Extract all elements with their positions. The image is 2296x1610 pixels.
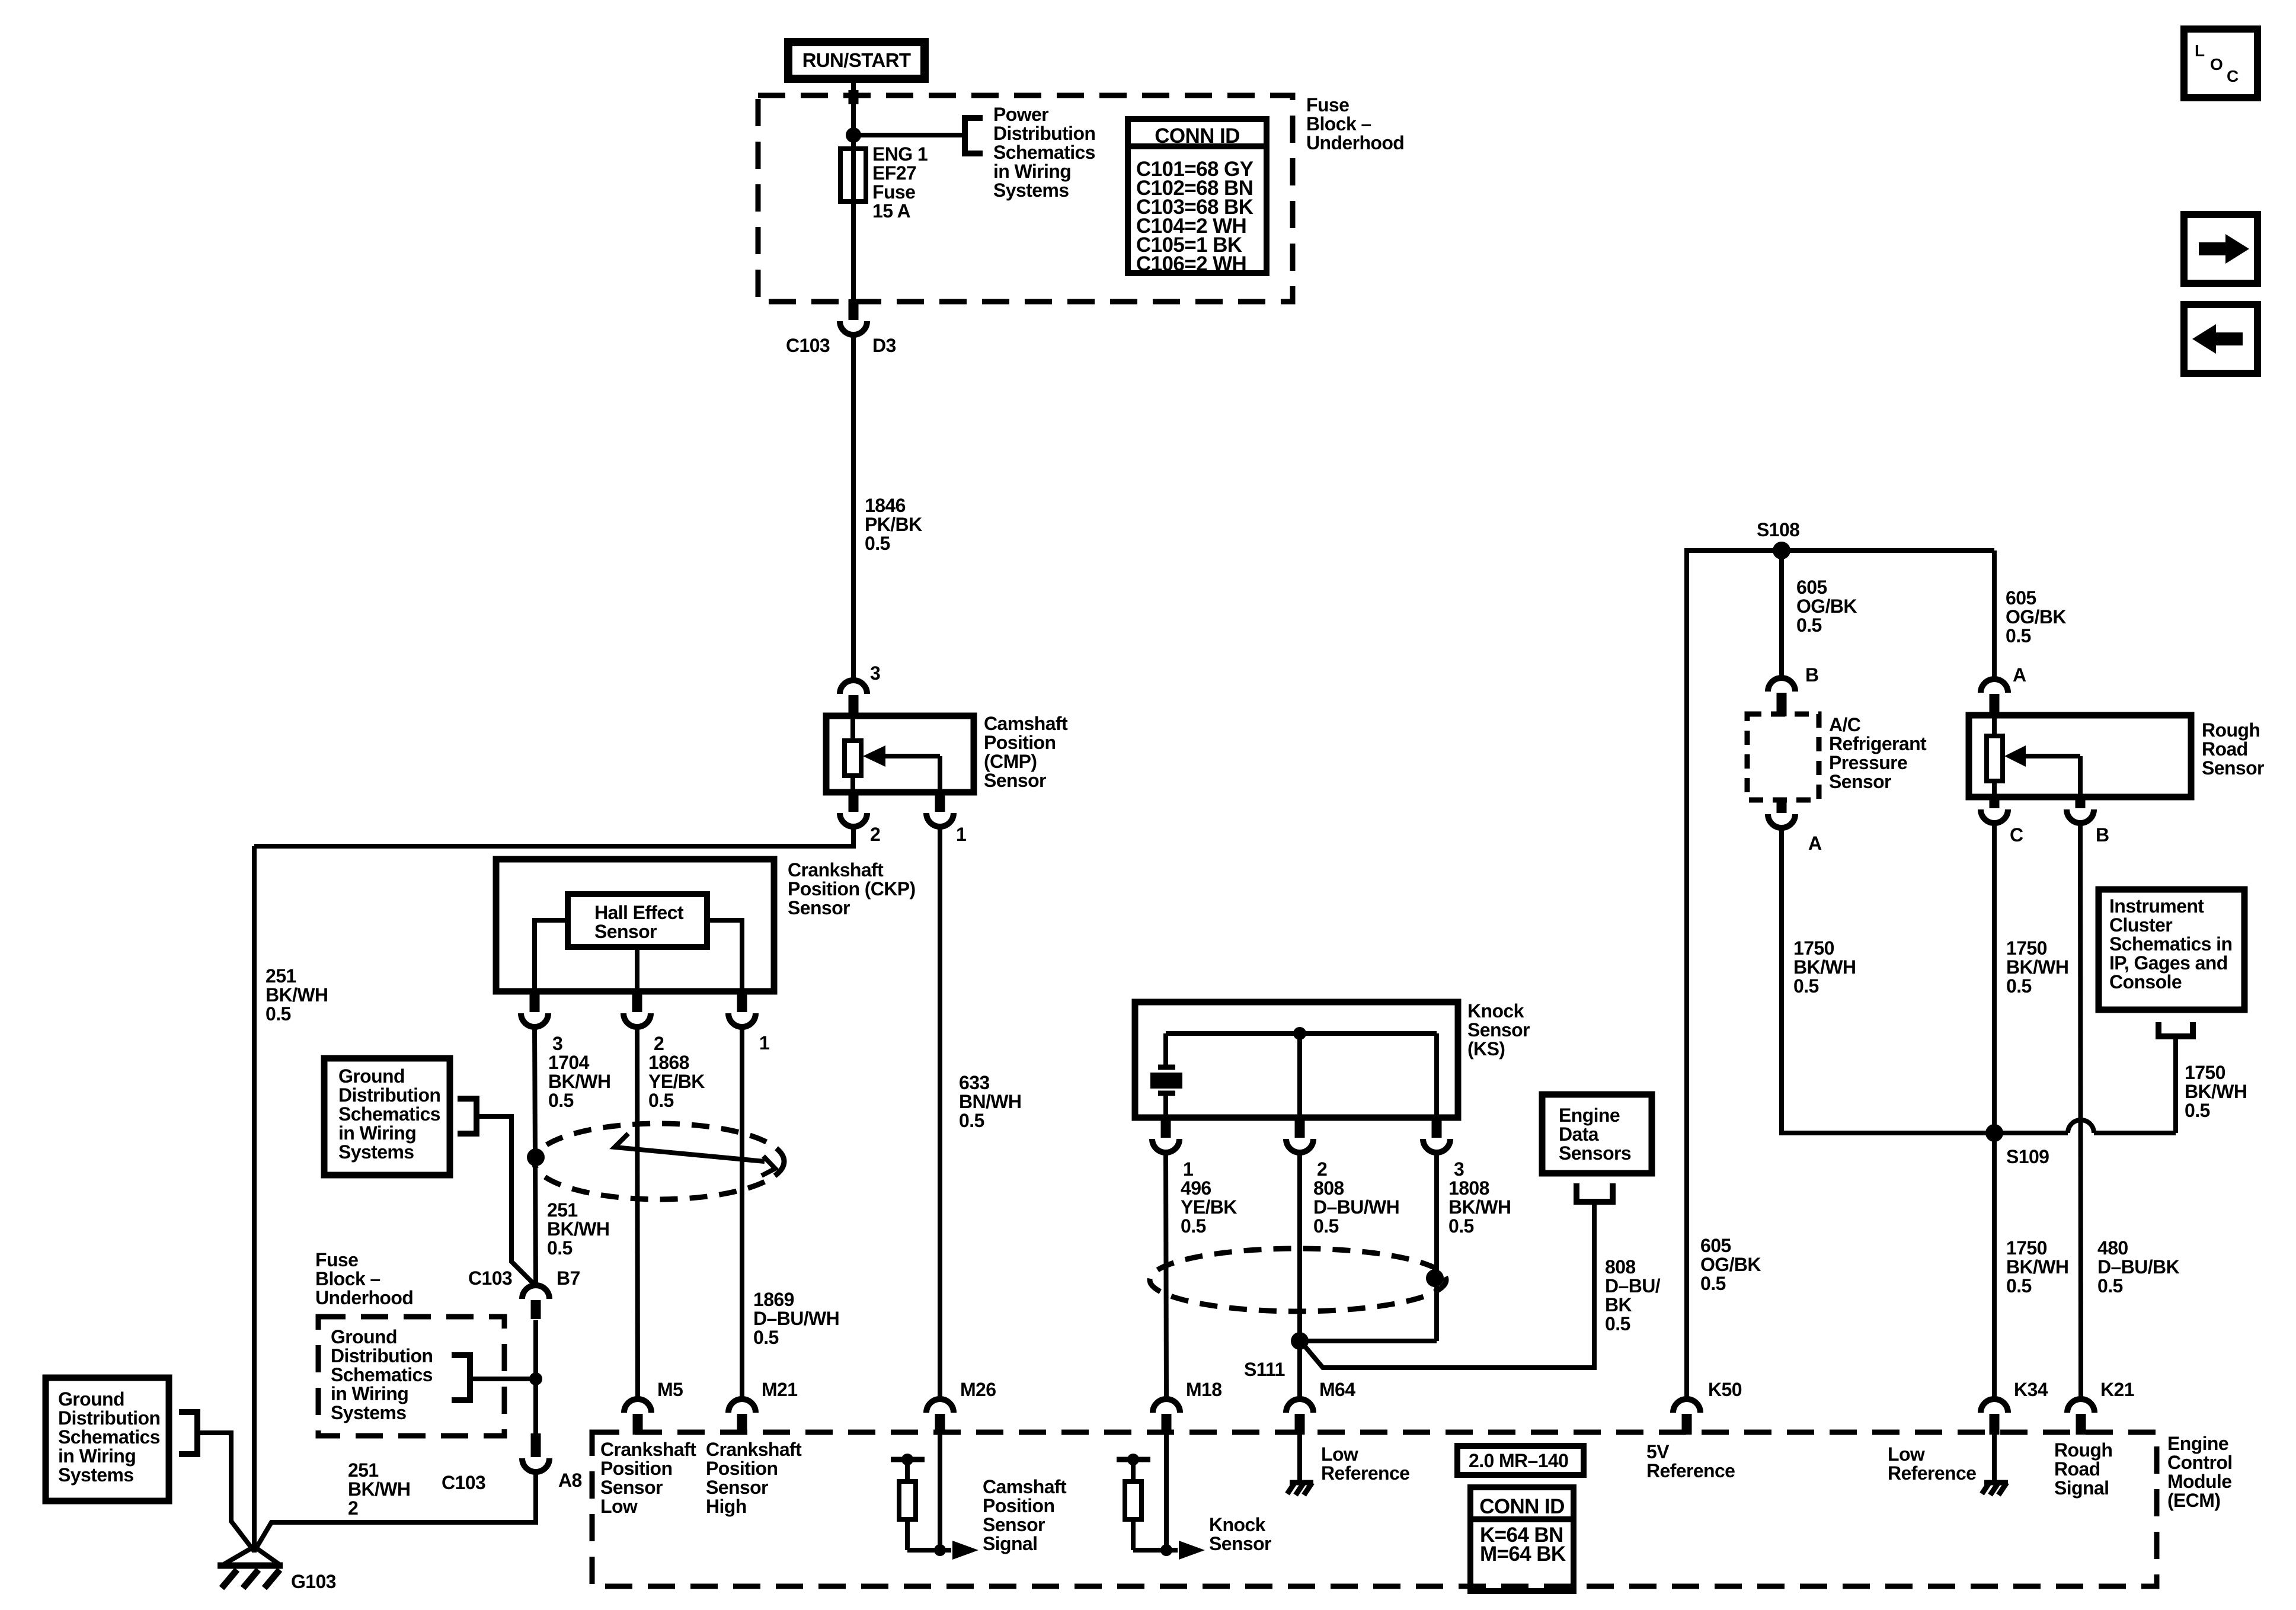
svg-text:A/C: A/C — [1829, 714, 1861, 735]
wire hop over 480 wire — [2068, 1120, 2094, 1133]
svg-text:Signal: Signal — [983, 1533, 1037, 1554]
svg-text:Power: Power — [993, 104, 1048, 125]
svg-text:Hall Effect: Hall Effect — [594, 902, 684, 923]
svg-text:1808: 1808 — [1448, 1177, 1489, 1199]
svg-text:Underhood: Underhood — [315, 1287, 413, 1308]
svg-text:OG/BK: OG/BK — [1700, 1254, 1761, 1275]
wire S111 horizontal to 1808 wire — [1300, 1339, 1437, 1343]
svg-text:15 A: 15 A — [872, 200, 910, 222]
node M18 signal junction — [1160, 1544, 1172, 1556]
ECM K34 wire to ground — [1992, 1432, 1997, 1483]
svg-text:D–BU/WH: D–BU/WH — [1313, 1196, 1399, 1218]
fuse ENG 1 EF27 15A symbol — [851, 135, 856, 204]
svg-text:Sensor: Sensor — [788, 897, 850, 918]
ECM M26 wire internal — [938, 1432, 942, 1550]
svg-text:Ground: Ground — [331, 1326, 397, 1347]
svg-text:0.5: 0.5 — [1181, 1215, 1206, 1237]
svg-text:Signal: Signal — [2054, 1477, 2109, 1499]
svg-text:A8: A8 — [558, 1470, 582, 1491]
wire S111 to M64 — [1297, 1341, 1302, 1399]
svg-text:BK/WH: BK/WH — [1448, 1196, 1511, 1218]
svg-text:Instrument: Instrument — [2109, 895, 2204, 917]
ground K34 low reference — [1984, 1480, 2008, 1486]
connector C103 pin B7 — [531, 1300, 541, 1319]
ground distribution solid box 3 (bottom left) — [46, 1378, 169, 1501]
connector CMP pin 2 — [849, 793, 859, 812]
wire RUN/START to fuse block — [851, 83, 856, 136]
svg-text:Knock: Knock — [1467, 1000, 1524, 1022]
svg-text:Engine: Engine — [2167, 1433, 2228, 1454]
svg-text:BK/WH: BK/WH — [548, 1071, 610, 1092]
node shield junction dot on 1808 wire — [1426, 1269, 1444, 1287]
svg-text:C103: C103 — [786, 335, 830, 356]
fuse block - underhood dashed box — [758, 95, 1293, 302]
svg-text:Position (CKP): Position (CKP) — [788, 878, 916, 900]
bracket ground distribution 2 — [452, 1355, 470, 1400]
wire hall sensor to CKP pin3 — [535, 920, 568, 990]
engine control module ECM dashed box — [592, 1432, 2157, 1586]
KS internal wire pin3 — [1434, 1033, 1439, 1116]
crankshaft position sensor CKP box — [496, 859, 774, 991]
svg-text:G103: G103 — [291, 1571, 336, 1592]
svg-text:Sensor: Sensor — [984, 770, 1046, 791]
shield ellipse KS wires — [1150, 1249, 1446, 1311]
KS internal wire pin2 — [1297, 1033, 1302, 1116]
svg-text:Low: Low — [600, 1496, 638, 1517]
svg-text:Position: Position — [600, 1458, 672, 1479]
wire S111 to engine data sensors — [1304, 1203, 1594, 1368]
svg-text:1: 1 — [956, 824, 966, 845]
svg-text:251: 251 — [348, 1459, 379, 1481]
ECM M26 pullup network — [891, 1457, 925, 1462]
svg-text:YE/BK: YE/BK — [648, 1071, 705, 1092]
svg-text:BK/WH: BK/WH — [2185, 1081, 2247, 1102]
svg-text:Systems: Systems — [993, 180, 1069, 201]
svg-text:0.5: 0.5 — [1796, 614, 1822, 636]
connector RR pin B — [2076, 798, 2086, 808]
svg-text:Ground: Ground — [58, 1388, 124, 1410]
svg-text:Distribution: Distribution — [338, 1084, 440, 1106]
svg-text:M26: M26 — [960, 1379, 996, 1400]
svg-text:Control: Control — [2167, 1452, 2233, 1473]
svg-text:Knock: Knock — [1209, 1514, 1266, 1535]
svg-text:1704: 1704 — [548, 1052, 590, 1073]
svg-text:Sensor: Sensor — [1209, 1533, 1271, 1554]
camshaft position sensor CMP box — [826, 716, 974, 792]
KS piezo element — [1163, 1033, 1168, 1067]
svg-text:YE/BK: YE/BK — [1181, 1196, 1237, 1218]
svg-text:OG/BK: OG/BK — [2006, 606, 2066, 628]
svg-text:BN/WH: BN/WH — [959, 1091, 1021, 1112]
svg-text:2.0 MR–140: 2.0 MR–140 — [1469, 1450, 1568, 1471]
svg-text:2: 2 — [348, 1497, 358, 1519]
twisted lead arrow CKP — [615, 1134, 775, 1176]
shield ellipse CKP wires — [534, 1124, 784, 1199]
wire A8 to ground G103 — [254, 1472, 536, 1551]
connector AC pin B — [1777, 693, 1787, 716]
connector ECM pin M26 — [935, 1414, 945, 1435]
svg-text:in Wiring: in Wiring — [338, 1122, 416, 1144]
svg-text:BK/WH: BK/WH — [2006, 1256, 2068, 1278]
svg-text:IP, Gages and: IP, Gages and — [2109, 952, 2228, 974]
svg-text:1868: 1868 — [648, 1052, 689, 1073]
engine data sensors box — [1542, 1094, 1652, 1173]
svg-text:Camshaft: Camshaft — [983, 1476, 1067, 1497]
svg-text:Distribution: Distribution — [993, 123, 1095, 144]
connector CKP pin 3 — [530, 989, 540, 1012]
wire 808 D-BU/WH pin2 to S111 — [1297, 1153, 1302, 1341]
connector ECM pin K21 — [2076, 1414, 2086, 1435]
svg-text:Systems: Systems — [58, 1464, 133, 1486]
connector ECM pin M18 — [1162, 1414, 1172, 1435]
wire S108 to AC pressure sensor — [1779, 550, 1784, 679]
svg-text:Schematics: Schematics — [338, 1103, 440, 1125]
LOC reference box — [2184, 29, 2257, 98]
ECM M18 pullup network — [1117, 1457, 1150, 1462]
svg-text:K34: K34 — [2014, 1379, 2048, 1400]
RR variable arrow — [2025, 754, 2080, 758]
svg-text:Sensor: Sensor — [2202, 757, 2264, 779]
svg-text:Underhood: Underhood — [1306, 132, 1404, 153]
svg-text:S108: S108 — [1757, 519, 1799, 540]
svg-text:Data: Data — [1559, 1124, 1599, 1145]
svg-text:0.5: 0.5 — [959, 1110, 984, 1131]
wire 496 YE/BK pin1 to M18 — [1166, 1153, 1166, 1399]
svg-text:B: B — [2096, 824, 2109, 846]
svg-text:M64: M64 — [1319, 1379, 1355, 1400]
svg-text:C103: C103 — [442, 1472, 485, 1493]
svg-text:496: 496 — [1181, 1177, 1211, 1199]
svg-text:BK/WH: BK/WH — [266, 984, 328, 1006]
svg-text:K21: K21 — [2100, 1379, 2134, 1400]
svg-text:0.5: 0.5 — [548, 1090, 574, 1111]
svg-text:Sensor: Sensor — [706, 1477, 768, 1498]
svg-text:EF27: EF27 — [872, 162, 916, 184]
connector ECM pin K34 — [1990, 1414, 2000, 1435]
svg-text:BK/WH: BK/WH — [1793, 956, 1856, 978]
ground distribution solid box 1 — [324, 1058, 450, 1175]
svg-text:Position: Position — [983, 1495, 1054, 1516]
wire CMP pin2 to ground run — [254, 827, 853, 846]
svg-text:PK/BK: PK/BK — [865, 514, 922, 535]
wire B7 through box to A8 — [533, 1320, 538, 1435]
svg-text:D–BU/: D–BU/ — [1605, 1275, 1661, 1297]
svg-text:OG/BK: OG/BK — [1796, 596, 1857, 617]
svg-text:605: 605 — [1796, 577, 1827, 598]
svg-text:2: 2 — [870, 824, 880, 845]
svg-text:1750: 1750 — [1793, 937, 1834, 959]
bracket ground distribution 1 — [458, 1099, 477, 1134]
svg-text:Sensor: Sensor — [983, 1514, 1045, 1535]
connector KS pin 1 — [1161, 1115, 1171, 1138]
svg-text:0.5: 0.5 — [266, 1003, 291, 1025]
svg-text:Sensor: Sensor — [594, 921, 657, 942]
svg-text:in Wiring: in Wiring — [331, 1383, 408, 1404]
svg-text:Fuse: Fuse — [872, 181, 915, 203]
svg-text:1846: 1846 — [865, 495, 906, 516]
svg-text:CONN ID: CONN ID — [1479, 1495, 1565, 1518]
connector ECM pin M64 — [1295, 1414, 1305, 1435]
wire 1704 BK/WH pin3 down — [535, 1027, 536, 1286]
svg-text:2: 2 — [1317, 1158, 1327, 1180]
svg-text:0.5: 0.5 — [648, 1090, 674, 1111]
wire bracket3 to ground — [197, 1433, 254, 1551]
wire AC pin A to S109 — [1782, 828, 1994, 1133]
wire S109 to K34 — [1992, 1133, 1997, 1399]
svg-text:Distribution: Distribution — [331, 1345, 433, 1366]
svg-text:(KS): (KS) — [1467, 1038, 1505, 1060]
svg-text:0.5: 0.5 — [865, 533, 890, 554]
svg-text:M=64 BK: M=64 BK — [1480, 1542, 1566, 1566]
wire instrument cluster to S109 — [2173, 1036, 2178, 1133]
svg-text:Road: Road — [2202, 738, 2248, 760]
connector ECM pin M5 — [633, 1414, 643, 1435]
svg-text:1: 1 — [759, 1032, 769, 1054]
svg-text:5V: 5V — [1646, 1441, 1670, 1462]
svg-text:L: L — [2195, 41, 2205, 60]
svg-text:in Wiring: in Wiring — [58, 1445, 136, 1467]
wire RR pin C to S109 — [1992, 824, 1997, 1133]
svg-text:1750: 1750 — [2006, 1237, 2047, 1259]
svg-text:RUN/START: RUN/START — [802, 49, 911, 71]
svg-text:Distribution: Distribution — [58, 1407, 160, 1429]
svg-text:605: 605 — [1700, 1235, 1731, 1256]
wire 480 D-BU/BK RR pin B to K21 — [2080, 824, 2081, 1399]
connector ECM pin K50 — [1682, 1414, 1692, 1435]
svg-text:(ECM): (ECM) — [2167, 1490, 2220, 1511]
svg-text:M18: M18 — [1186, 1379, 1221, 1400]
svg-text:3: 3 — [552, 1033, 562, 1054]
wire 1846 PK/BK from D3 to CMP pin 3 — [851, 335, 856, 680]
wire K50 5V reference riser — [1687, 550, 1994, 1399]
wire junction to power distribution bracket — [853, 133, 965, 137]
svg-text:ENG 1: ENG 1 — [872, 143, 928, 165]
knock sensor KS box — [1135, 1002, 1458, 1118]
svg-text:Sensor: Sensor — [1829, 771, 1891, 792]
wire hall sensor to CKP pin2 — [635, 947, 639, 990]
wire 1869 D-BU/WH pin1 to M21 — [740, 1027, 744, 1399]
svg-text:BK/WH: BK/WH — [547, 1218, 609, 1240]
bracket instrument cluster — [2159, 1022, 2193, 1036]
svg-text:0.5: 0.5 — [2185, 1100, 2210, 1121]
svg-text:Schematics: Schematics — [331, 1364, 433, 1385]
svg-text:Sensor: Sensor — [1467, 1019, 1530, 1041]
svg-text:BK: BK — [1605, 1294, 1632, 1315]
ECM M64 wire to ground — [1297, 1432, 1302, 1483]
wire 633 BN/WH CMP pin1 to M26 — [938, 827, 942, 1399]
svg-text:Fuse: Fuse — [315, 1249, 358, 1270]
wire hall sensor to CKP pin1 — [707, 920, 742, 990]
ECM camshaft signal arrow — [952, 1541, 978, 1560]
wire hop to instrument riser — [2094, 1131, 2176, 1135]
svg-text:(CMP): (CMP) — [984, 751, 1037, 772]
svg-text:Engine: Engine — [1559, 1105, 1620, 1126]
svg-text:Refrigerant: Refrigerant — [1829, 733, 1927, 754]
svg-text:1750: 1750 — [2006, 937, 2047, 959]
svg-text:0.5: 0.5 — [1700, 1273, 1726, 1294]
svg-text:Crankshaft: Crankshaft — [788, 859, 884, 881]
svg-text:Crankshaft: Crankshaft — [600, 1439, 696, 1460]
power distribution reference bracket — [965, 118, 983, 153]
svg-text:3: 3 — [870, 662, 880, 684]
svg-text:O: O — [2210, 55, 2223, 73]
arrow box right — [2184, 215, 2257, 283]
svg-text:480: 480 — [2097, 1237, 2128, 1259]
node shield junction dot on 1704 wire — [527, 1148, 545, 1166]
wire 1868 YE/BK pin2 to M5 — [637, 1027, 638, 1399]
svg-text:Reference: Reference — [1321, 1462, 1409, 1484]
svg-text:Low: Low — [1888, 1443, 1925, 1465]
svg-text:M21: M21 — [762, 1379, 797, 1400]
svg-text:0.5: 0.5 — [2006, 975, 2032, 997]
svg-text:K50: K50 — [1708, 1379, 1742, 1400]
svg-text:Crankshaft: Crankshaft — [706, 1439, 802, 1460]
svg-text:1: 1 — [1183, 1158, 1193, 1180]
svg-text:Schematics: Schematics — [58, 1426, 160, 1448]
svg-text:605: 605 — [2006, 587, 2036, 609]
svg-text:1750: 1750 — [2185, 1062, 2225, 1083]
hall effect sensor inner box — [568, 894, 707, 947]
node splice S109 — [1985, 1124, 2003, 1142]
svg-text:in Wiring: in Wiring — [993, 161, 1071, 182]
svg-text:Schematics in: Schematics in — [2109, 933, 2232, 955]
wire 251 BK/WH left ground run — [252, 846, 257, 1553]
svg-text:S109: S109 — [2006, 1146, 2049, 1167]
CMP variable arrow — [884, 754, 940, 758]
instrument cluster box — [2099, 889, 2244, 1010]
svg-text:251: 251 — [547, 1199, 578, 1221]
svg-text:High: High — [706, 1496, 747, 1517]
svg-text:1869: 1869 — [753, 1289, 794, 1310]
svg-text:Reference: Reference — [1888, 1462, 1976, 1484]
svg-text:Systems: Systems — [338, 1141, 414, 1163]
svg-text:Fuse: Fuse — [1306, 94, 1349, 116]
CMP sensing element resistor — [850, 716, 855, 792]
svg-text:Camshaft: Camshaft — [984, 713, 1068, 734]
connector CMP pin 3 — [849, 695, 859, 717]
svg-text:D–BU/WH: D–BU/WH — [753, 1308, 839, 1329]
svg-text:Module: Module — [2167, 1471, 2231, 1492]
ECM knock signal arrow — [1179, 1541, 1205, 1560]
svg-text:Reference: Reference — [1646, 1460, 1735, 1481]
connector CKP pin 1 — [737, 989, 747, 1012]
connector CMP pin 1 — [935, 793, 945, 812]
svg-text:S111: S111 — [1244, 1359, 1285, 1380]
svg-text:Rough: Rough — [2054, 1439, 2112, 1461]
svg-text:0.5: 0.5 — [2006, 1275, 2032, 1297]
svg-text:CONN ID: CONN ID — [1155, 124, 1240, 148]
svg-text:251: 251 — [266, 965, 296, 987]
bracket ground distribution 3 — [179, 1412, 197, 1454]
node M26 signal junction — [934, 1544, 946, 1556]
svg-text:808: 808 — [1313, 1177, 1344, 1199]
wire fuse to connector C103 D3 — [851, 201, 856, 300]
svg-text:Block –: Block – — [315, 1268, 380, 1289]
svg-text:M5: M5 — [657, 1379, 683, 1400]
node splice S111 — [1291, 1332, 1309, 1350]
label 2.0 MR-140 box — [1457, 1446, 1584, 1475]
ground G103 symbol — [222, 1547, 254, 1566]
svg-text:0.5: 0.5 — [1313, 1215, 1339, 1237]
svg-text:Position: Position — [984, 732, 1056, 753]
ground M64 low reference — [1290, 1480, 1313, 1486]
svg-text:C103: C103 — [468, 1267, 512, 1289]
arrow box left — [2184, 305, 2257, 373]
node junction dot at fuse feed — [846, 127, 861, 143]
svg-text:C: C — [2227, 67, 2239, 85]
svg-text:Cluster: Cluster — [2109, 914, 2172, 936]
AC refrigerant pressure sensor dashed box — [1747, 714, 1819, 800]
svg-text:Systems: Systems — [331, 1402, 406, 1423]
svg-text:Rough: Rough — [2202, 719, 2260, 741]
connector RR pin C — [1990, 798, 2000, 808]
wire bracket1 to B7 connector — [477, 1116, 536, 1286]
node junction dot bracket2 — [529, 1372, 542, 1385]
node splice S108 — [1773, 542, 1790, 559]
connector KS pin 3 — [1432, 1115, 1442, 1138]
svg-text:C106=2 WH: C106=2 WH — [1136, 252, 1246, 276]
CONN ID table underhood — [1128, 119, 1267, 273]
svg-text:0.5: 0.5 — [2097, 1275, 2123, 1297]
bracket engine data sensors — [1576, 1183, 1613, 1202]
ECM M18 wire internal — [1164, 1432, 1169, 1550]
connector ECM pin M21 — [737, 1414, 747, 1435]
svg-text:A: A — [1808, 833, 1822, 854]
rough road sensor box — [1969, 715, 2191, 797]
svg-text:A: A — [2013, 664, 2026, 686]
svg-text:BK/WH: BK/WH — [348, 1478, 410, 1500]
svg-text:C: C — [2010, 824, 2023, 846]
svg-text:Schematics: Schematics — [993, 142, 1095, 163]
svg-text:BK/WH: BK/WH — [2006, 956, 2068, 978]
ignition feed RUN/START box — [788, 42, 925, 79]
svg-text:0.5: 0.5 — [1793, 975, 1819, 997]
svg-text:3: 3 — [1454, 1158, 1464, 1180]
svg-text:Pressure: Pressure — [1829, 752, 1907, 773]
svg-text:Block –: Block – — [1306, 113, 1371, 135]
connector C103 pin D3 — [849, 299, 859, 320]
node KS internal junction — [1293, 1027, 1306, 1040]
connector CKP pin 2 — [632, 989, 642, 1012]
svg-text:Sensor: Sensor — [600, 1477, 663, 1498]
RR sensing element resistor — [1992, 715, 1997, 797]
svg-text:Console: Console — [2109, 971, 2182, 993]
svg-text:Ground: Ground — [338, 1065, 405, 1087]
svg-text:B: B — [1805, 664, 1819, 686]
connector C103 pin A8 — [531, 1433, 541, 1457]
svg-text:D3: D3 — [872, 335, 896, 356]
wire S109 to hop — [1994, 1131, 2068, 1135]
wire rough road pin A feed — [1992, 550, 1997, 679]
KS internal bus wire — [1166, 1031, 1437, 1036]
svg-text:0.5: 0.5 — [547, 1237, 573, 1259]
svg-text:808: 808 — [1605, 1256, 1636, 1278]
svg-text:0.5: 0.5 — [1605, 1313, 1630, 1334]
svg-text:633: 633 — [959, 1072, 990, 1093]
connector AC pin A — [1777, 798, 1787, 813]
svg-text:Low: Low — [1321, 1443, 1358, 1465]
svg-text:B7: B7 — [557, 1267, 580, 1289]
svg-text:0.5: 0.5 — [1448, 1215, 1474, 1237]
svg-text:Position: Position — [706, 1458, 778, 1479]
wire bracket2 to B7-A8 wire — [470, 1377, 536, 1381]
ground distribution dashed box 2 — [318, 1317, 504, 1436]
connector RR pin A — [1990, 694, 2000, 718]
svg-text:Road: Road — [2054, 1458, 2100, 1480]
svg-text:0.5: 0.5 — [753, 1327, 779, 1348]
CONN ID table ECM — [1470, 1487, 1574, 1591]
svg-text:2: 2 — [654, 1033, 664, 1054]
